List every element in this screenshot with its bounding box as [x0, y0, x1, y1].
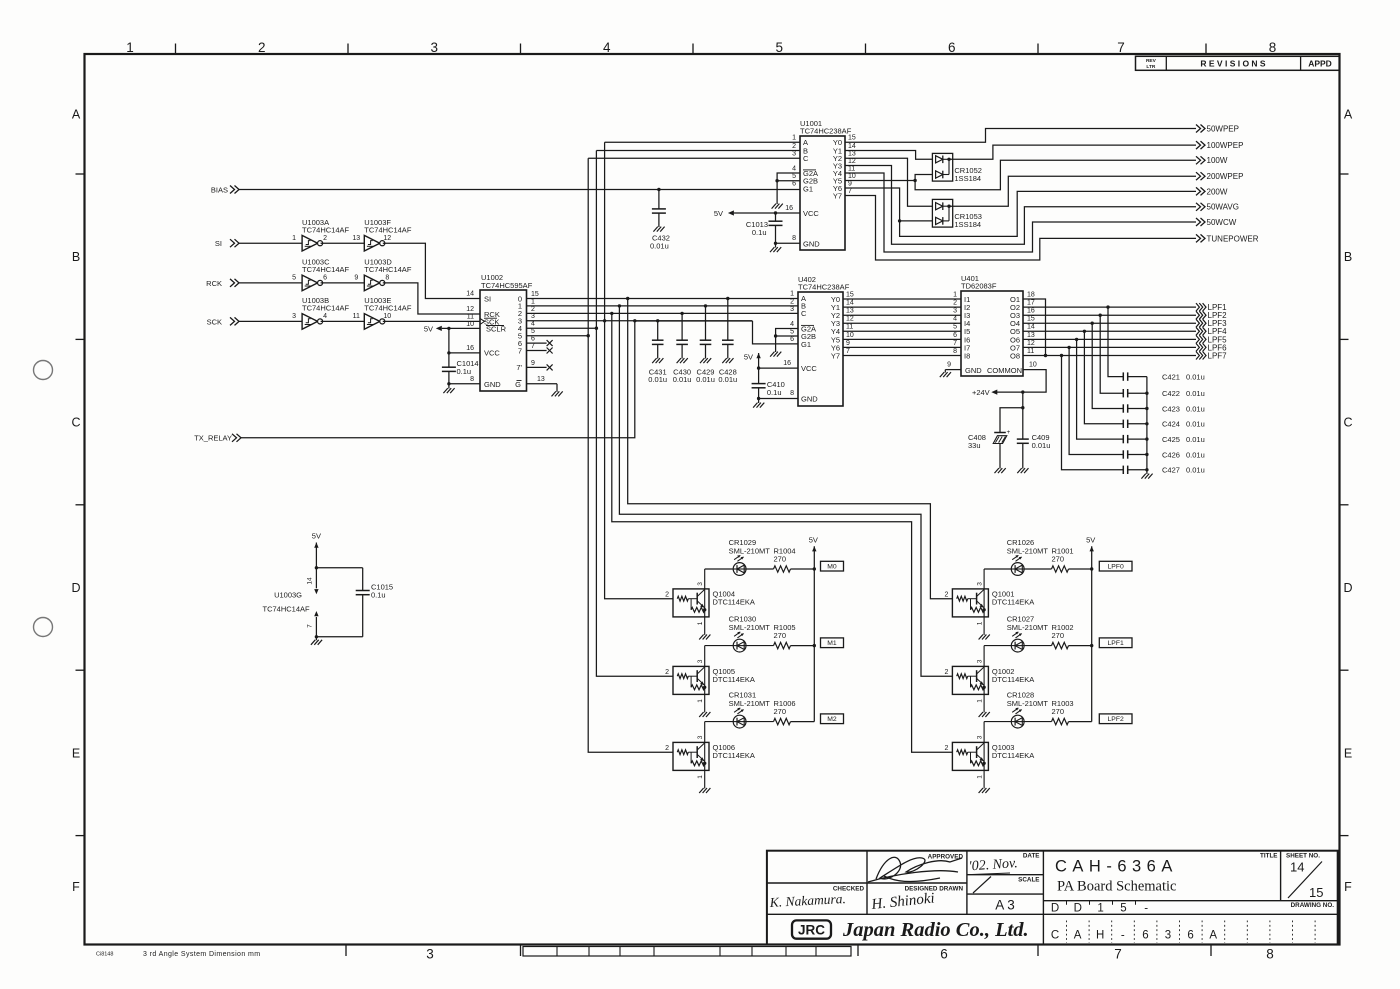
svg-text:1: 1 — [790, 291, 794, 298]
wire U402 Y2 to U401 I3 — [843, 314, 961, 316]
svg-text:6: 6 — [531, 336, 535, 343]
svg-text:14: 14 — [846, 300, 854, 307]
ground C429 — [700, 358, 704, 363]
bus vertical out4 (U1001 B / Q1005) — [596, 151, 673, 677]
svg-text:100W: 100W — [1207, 156, 1228, 165]
capacitor C427 — [1122, 466, 1124, 474]
svg-text:6: 6 — [323, 275, 327, 282]
wire Y4 to 50WCW — [845, 173, 1196, 252]
wire U1003A out — [321, 242, 365, 244]
net label M1 — [821, 638, 844, 648]
port 50WCW — [1196, 218, 1201, 226]
svg-text:200W: 200W — [1207, 187, 1228, 196]
ground Q1005 — [699, 712, 703, 717]
junction C410 top — [757, 366, 760, 369]
junction U1003G gnd — [315, 635, 318, 638]
scale slash — [973, 877, 991, 894]
junction — [1145, 407, 1148, 410]
Q1006 CE vertical — [704, 743, 706, 763]
svg-text:D: D — [71, 581, 80, 595]
svg-text:14: 14 — [307, 577, 314, 585]
ground Q1003 — [979, 788, 983, 793]
svg-text:+24V: +24V — [972, 388, 990, 397]
junction TX_RELAY — [633, 319, 636, 322]
junction out2 — [610, 312, 613, 315]
Q1002 emitter stroke — [977, 678, 985, 685]
svg-text:Japan Radio Co., Ltd.: Japan Radio Co., Ltd. — [842, 919, 1029, 941]
svg-text:9: 9 — [846, 340, 850, 347]
svg-text:5V: 5V — [809, 536, 818, 545]
title block h2 — [967, 874, 1044, 876]
svg-text:13: 13 — [848, 151, 856, 158]
svg-text:C: C — [803, 154, 809, 163]
svg-text:3: 3 — [697, 582, 704, 586]
wire collector to LED — [984, 645, 1011, 647]
wire resistor to net M2 — [791, 721, 815, 723]
svg-text:TUNEPOWER: TUNEPOWER — [1207, 234, 1259, 243]
port TUNEPOWER — [1196, 234, 1201, 242]
svg-text:270: 270 — [1052, 555, 1065, 564]
port LPF2 — [1196, 311, 1199, 319]
wire Y6 to CR1053 bottom anode — [900, 220, 933, 222]
wire C421 to common — [1128, 376, 1147, 378]
svg-text:GND: GND — [803, 239, 820, 248]
Q1003 base bar — [976, 746, 978, 758]
svg-text:DTC114EKA: DTC114EKA — [713, 751, 755, 760]
capacitor C1014 — [448, 328, 450, 367]
svg-text:JRC: JRC — [798, 922, 825, 937]
Q1005 shunt resistor — [690, 676, 692, 687]
svg-text:D: D — [1343, 581, 1352, 595]
wire collector to LED — [984, 568, 1011, 570]
wire U402 Y4 to U401 I5 — [843, 330, 961, 332]
wire C — [588, 157, 800, 159]
svg-text:C423: C423 — [1162, 404, 1180, 413]
svg-text:A: A — [1074, 930, 1082, 942]
svg-text:I8: I8 — [964, 351, 970, 360]
svg-text:15: 15 — [846, 291, 854, 298]
title block h5 — [767, 913, 1338, 915]
wire U1003C out — [321, 282, 365, 284]
port 50WAVG — [1196, 203, 1201, 211]
svg-text:F: F — [72, 880, 80, 894]
capacitor C431 — [657, 321, 659, 340]
wire tap C426 — [1069, 347, 1123, 454]
Q1003 collector stroke — [977, 743, 985, 750]
svg-text:LTR: LTR — [1146, 64, 1156, 70]
wire Y1 to CR1052 top anode — [845, 151, 932, 160]
svg-text:CAH-636A: CAH-636A — [1055, 858, 1178, 876]
Q1005 CE vertical — [704, 667, 706, 687]
svg-text:0.01u: 0.01u — [1186, 435, 1205, 444]
svg-text:VCC: VCC — [484, 349, 500, 358]
wire Q1003 emitter — [983, 763, 985, 788]
junction Y6 — [898, 219, 901, 222]
wire resistor to net LPF2 — [1069, 721, 1092, 723]
wire C1015 bottom — [316, 636, 362, 638]
svg-text:1: 1 — [953, 291, 957, 298]
capacitor C426 — [1122, 450, 1124, 458]
junction out1 — [618, 304, 621, 307]
junction — [813, 567, 816, 570]
svg-text:A 3: A 3 — [995, 898, 1015, 913]
svg-text:C421: C421 — [1162, 373, 1180, 382]
svg-text:10: 10 — [466, 321, 474, 328]
Q1001 shunt resistor — [970, 599, 972, 610]
junction — [1145, 468, 1148, 471]
diode pair CR1053 box — [932, 199, 952, 227]
transistor Q1005 box — [673, 666, 709, 694]
wire Q1006 emitter — [704, 763, 706, 788]
svg-text:15: 15 — [531, 291, 539, 298]
svg-text:13: 13 — [846, 308, 854, 315]
wire LED to resistor — [746, 568, 774, 570]
title block v2 — [966, 851, 968, 915]
wire O5 to LPF4 — [1023, 330, 1196, 332]
svg-text:1SS184: 1SS184 — [954, 220, 981, 229]
svg-text:13: 13 — [537, 376, 545, 383]
G pin ground — [527, 383, 558, 385]
svg-text:5V: 5V — [424, 325, 433, 334]
svg-text:18: 18 — [1027, 291, 1035, 298]
svg-text:6: 6 — [940, 947, 948, 962]
junction C410 bottom — [757, 397, 760, 400]
svg-text:5V: 5V — [312, 532, 321, 541]
svg-text:H. Shinoki: H. Shinoki — [870, 890, 936, 913]
svg-text:9: 9 — [531, 360, 535, 367]
svg-text:10: 10 — [1029, 361, 1037, 368]
transistor Q1003 box — [952, 742, 988, 770]
wire Q1001 emitter — [983, 610, 985, 635]
title block outer box — [767, 851, 1338, 945]
svg-text:5V: 5V — [714, 209, 723, 218]
wire U402 VCC — [758, 353, 760, 368]
svg-text:K. Nakamura.: K. Nakamura. — [768, 891, 846, 910]
junction O4 cap tap — [1091, 322, 1094, 325]
wire C425 to common — [1128, 438, 1147, 440]
svg-text:1: 1 — [697, 621, 704, 625]
svg-text:SML-210MT: SML-210MT — [729, 546, 771, 555]
svg-text:LPF1: LPF1 — [1108, 640, 1124, 647]
svg-text:TC74HC238AF: TC74HC238AF — [798, 283, 850, 292]
svg-text:TC74HC14AF: TC74HC14AF — [262, 604, 310, 613]
svg-text:C426: C426 — [1162, 450, 1180, 459]
svg-text:DTC114EKA: DTC114EKA — [713, 675, 755, 684]
wire VCC U1001 — [734, 212, 800, 214]
wire O1 tie — [1023, 299, 1046, 356]
svg-text:7: 7 — [307, 624, 314, 628]
svg-text:E: E — [72, 746, 80, 760]
port LPF1 — [1196, 303, 1199, 311]
junction Q1003 emitter — [982, 762, 985, 765]
svg-text:11: 11 — [353, 313, 360, 320]
wire O6 to LPF5 — [1023, 338, 1196, 340]
ground C428 — [722, 358, 726, 363]
wire Q1001 collector — [983, 569, 985, 589]
junction — [813, 644, 816, 647]
ground Q1006 — [699, 788, 703, 793]
Q1005 base bar — [696, 670, 698, 682]
junction GND — [774, 242, 777, 245]
svg-text:5: 5 — [776, 40, 784, 55]
title block v4 — [1280, 851, 1282, 901]
capacitor C428 — [727, 299, 729, 341]
wire out2 to U402 C — [527, 312, 799, 314]
revisions header box — [1136, 56, 1340, 70]
svg-text:RCK: RCK — [206, 279, 222, 288]
Q1001 base bar — [976, 593, 978, 605]
wire U402 Y3 to U401 I4 — [843, 322, 961, 324]
svg-text:14: 14 — [848, 143, 856, 150]
svg-text:LPF7: LPF7 — [1208, 351, 1228, 360]
capacitor C410 — [758, 368, 760, 384]
IC U1001 box — [800, 136, 845, 250]
svg-text:Y7: Y7 — [833, 191, 842, 200]
svg-text:6: 6 — [953, 332, 957, 339]
svg-text:2: 2 — [258, 40, 266, 55]
wire U1003E out to U1002 SCK — [383, 320, 480, 322]
wire C408 branch — [1000, 408, 1023, 433]
wire out3 / TX_RELAY net horizontal — [527, 320, 753, 322]
junction — [1090, 644, 1093, 647]
svg-text:8: 8 — [1266, 947, 1274, 962]
bus vertical out0 (Q1001) — [628, 299, 953, 599]
svg-text:5: 5 — [792, 173, 796, 180]
wire out0 to U402 A — [527, 298, 799, 300]
inverter U1003C — [302, 275, 318, 291]
wire Y6 — [845, 188, 900, 221]
junction C431 — [656, 319, 659, 322]
Q1003 base resistor — [957, 750, 968, 755]
svg-text:50WPEP: 50WPEP — [1207, 124, 1239, 133]
svg-text:11: 11 — [1027, 348, 1034, 355]
svg-text:3: 3 — [292, 313, 296, 320]
svg-text:8: 8 — [790, 390, 794, 397]
title block h4 — [1043, 900, 1337, 902]
svg-text:8: 8 — [470, 376, 474, 383]
Q1004 base wire — [688, 598, 697, 600]
svg-text:TC74HC14AF: TC74HC14AF — [302, 304, 350, 313]
wire tap C422 — [1100, 315, 1123, 393]
svg-text:C: C — [1343, 416, 1352, 430]
ground below C1014 — [448, 384, 450, 389]
junction — [447, 327, 450, 330]
svg-text:SI: SI — [484, 294, 491, 303]
ground U401 — [940, 372, 944, 377]
svg-text:16: 16 — [466, 345, 474, 352]
junction — [1145, 453, 1148, 456]
capacitor C409 — [1017, 438, 1029, 440]
capacitor C424 — [1122, 420, 1124, 428]
svg-text:M2: M2 — [827, 716, 837, 723]
svg-text:1SS184: 1SS184 — [954, 174, 981, 183]
CR1053 cathode tie — [948, 206, 950, 221]
wire tap C424 — [1084, 331, 1123, 424]
junction O6 cap tap — [1075, 338, 1078, 341]
svg-text:5: 5 — [531, 328, 535, 335]
IC U401 box — [961, 291, 1023, 376]
svg-text:7: 7 — [848, 188, 852, 195]
svg-text:DRAWING NO.: DRAWING NO. — [1291, 902, 1335, 909]
wire out4 — [527, 327, 597, 329]
svg-text:16: 16 — [785, 205, 793, 212]
ground C409 — [1017, 468, 1021, 473]
Q1003 emitter stroke — [977, 754, 985, 761]
Q1004 collector stroke — [697, 589, 705, 596]
svg-text:SML-210MT: SML-210MT — [1007, 623, 1049, 632]
Q1004 base resistor — [677, 596, 688, 601]
resistor R1004 — [774, 566, 791, 572]
svg-text:Ci8148: Ci8148 — [96, 952, 113, 958]
svg-text:1: 1 — [697, 699, 704, 703]
svg-text:10: 10 — [846, 332, 854, 339]
svg-text:BIAS: BIAS — [211, 185, 228, 194]
svg-text:APPD: APPD — [1308, 59, 1332, 69]
svg-text:3: 3 — [792, 151, 796, 158]
LED CR1026 — [1011, 563, 1024, 576]
svg-text:0.01u: 0.01u — [1186, 420, 1205, 429]
svg-text:0.1u: 0.1u — [457, 367, 472, 376]
CR1052 cathode tie — [948, 159, 950, 174]
net label M0 — [821, 561, 844, 571]
bus vertical out5 (U1001 C / Q1006) — [588, 158, 673, 752]
svg-text:4: 4 — [323, 313, 327, 320]
junction O5 cap tap — [1083, 330, 1086, 333]
diode in CR1053 — [936, 217, 943, 224]
resistor R1001 — [1052, 566, 1069, 572]
wire Q1003 collector — [983, 722, 985, 743]
svg-text:M0: M0 — [827, 563, 837, 570]
wire COMMON to +24V — [995, 370, 1046, 393]
ground C408 — [995, 468, 999, 473]
Q1006 shunt resistor — [690, 752, 692, 763]
signature approved — [868, 857, 962, 882]
svg-text:8: 8 — [792, 235, 796, 242]
wire GND U1001 — [776, 242, 801, 244]
svg-text:+: + — [1007, 429, 1011, 436]
bus vertical out2 (Q1003) — [612, 313, 953, 752]
transistor Q1006 box — [673, 742, 709, 770]
svg-text:0.01u: 0.01u — [648, 375, 667, 384]
svg-text:0.01u: 0.01u — [1186, 404, 1205, 413]
wire U402 G2B stub — [776, 335, 798, 337]
sheet slash — [1288, 862, 1322, 899]
junction O3 cap tap — [1099, 314, 1102, 317]
wire U402 Y1 to U401 I2 — [843, 306, 961, 308]
svg-text:12: 12 — [848, 158, 856, 165]
wire Y5 to CR1052 bottom anode — [915, 175, 932, 181]
svg-text:F: F — [1344, 880, 1352, 894]
svg-text:TC74HC238AF: TC74HC238AF — [800, 127, 852, 136]
capacitor C1015 — [362, 568, 364, 591]
svg-text:9: 9 — [848, 180, 852, 187]
wire O2 to LPF1 — [1023, 306, 1196, 308]
ground U402 — [758, 399, 760, 404]
svg-text:4: 4 — [792, 165, 796, 172]
junction Q1002 emitter — [982, 686, 985, 689]
junction C429 — [704, 304, 707, 307]
svg-text:4: 4 — [790, 321, 794, 328]
svg-text:0.01u: 0.01u — [673, 375, 692, 384]
junction — [447, 382, 450, 385]
svg-text:5: 5 — [292, 275, 296, 282]
Q1006 base resistor — [677, 750, 688, 755]
svg-text:SML-210MT: SML-210MT — [1007, 546, 1049, 555]
Q1002 CE vertical — [983, 667, 985, 687]
svg-text:2: 2 — [944, 669, 948, 676]
svg-text:2: 2 — [665, 745, 669, 752]
port LPF4 — [1196, 327, 1199, 335]
capacitor C430 — [681, 313, 683, 340]
wire Q1005 emitter — [704, 687, 706, 712]
resistor R1006 — [774, 718, 791, 724]
title block h1 — [767, 882, 967, 884]
svg-text:15: 15 — [1027, 316, 1035, 323]
inverter U1003B — [302, 314, 318, 330]
inverter U1003D — [364, 275, 380, 291]
svg-text:16: 16 — [1027, 308, 1035, 315]
port 100W — [1196, 156, 1201, 164]
ground C430 — [677, 358, 681, 363]
svg-text:B: B — [1344, 250, 1352, 264]
title block h3 — [967, 893, 1044, 895]
wire collector to LED — [705, 721, 734, 723]
svg-text:3: 3 — [697, 659, 704, 663]
wire G2B stub — [777, 180, 800, 182]
ground U1001 — [775, 243, 777, 247]
svg-text:LPF0: LPF0 — [1108, 563, 1124, 570]
port LPF3 — [1196, 319, 1199, 327]
svg-text:7: 7 — [531, 343, 535, 350]
diode in CR1053 — [936, 203, 943, 210]
U1003G pin14 arrow — [315, 568, 317, 589]
capacitor C429 — [705, 306, 707, 340]
svg-text:270: 270 — [774, 707, 787, 716]
svg-text:0.01u: 0.01u — [1186, 450, 1205, 459]
svg-text:3: 3 — [426, 947, 434, 962]
svg-text:A: A — [1209, 930, 1217, 942]
junction — [447, 351, 450, 354]
svg-text:7: 7 — [953, 340, 957, 347]
transistor Q1001 box — [952, 589, 988, 617]
title block v3 — [1042, 851, 1044, 945]
svg-text:2: 2 — [953, 300, 957, 307]
junction — [1145, 422, 1148, 425]
junction C430 — [680, 312, 683, 315]
junction — [1090, 567, 1093, 570]
svg-text:0.1u: 0.1u — [752, 228, 767, 237]
resistor R1002 — [1052, 642, 1069, 648]
svg-text:G1: G1 — [803, 185, 813, 194]
svg-text:11: 11 — [846, 324, 853, 331]
svg-text:1: 1 — [531, 298, 535, 305]
svg-text:VCC: VCC — [801, 364, 817, 373]
net label LPF1 — [1099, 638, 1132, 648]
wire tap C423 — [1092, 323, 1123, 408]
svg-text:200WPEP: 200WPEP — [1207, 172, 1244, 181]
cap common vertical — [1146, 377, 1148, 474]
inverter U1003E — [364, 314, 380, 330]
LED CR1028 — [1011, 715, 1024, 728]
wire U402 Y7 to U401 I8 — [843, 355, 961, 357]
net label LPF0 — [1099, 561, 1132, 571]
svg-text:DATE: DATE — [1023, 853, 1040, 860]
svg-text:TC74HC14AF: TC74HC14AF — [364, 304, 412, 313]
svg-text:COMMON: COMMON — [987, 366, 1022, 375]
bus vertical out1 (Q1002) — [619, 306, 952, 676]
wire out1 to U402 B — [527, 305, 799, 307]
no-connect pin6 — [527, 342, 547, 344]
